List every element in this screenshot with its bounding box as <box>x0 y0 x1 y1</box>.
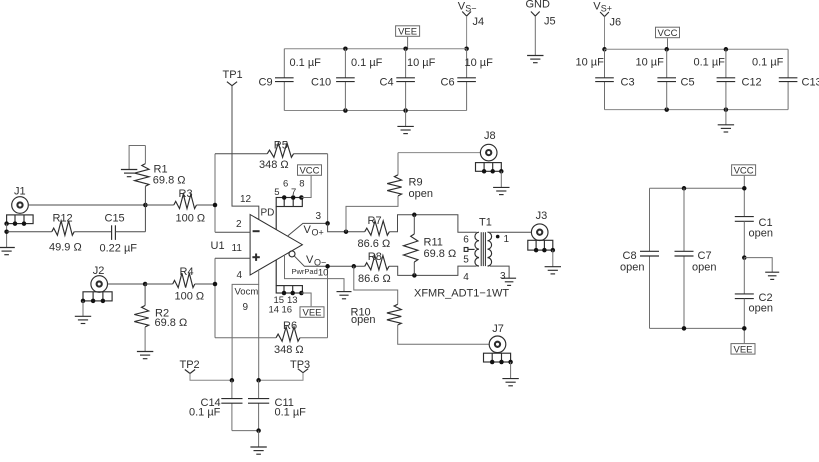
svg-text:9: 9 <box>243 302 249 313</box>
svg-text:69.8 Ω: 69.8 Ω <box>155 317 188 329</box>
svg-text:8: 8 <box>299 179 304 190</box>
U1 supply pins 5 6 7 8 <box>274 179 304 230</box>
connector J4 <box>473 16 485 28</box>
resistor R10 <box>351 266 490 344</box>
resistor R6 <box>215 320 328 356</box>
svg-text:J4: J4 <box>473 16 485 28</box>
svg-text:100 Ω: 100 Ω <box>175 290 205 302</box>
svg-text:69.8 Ω: 69.8 Ω <box>153 175 186 187</box>
svg-text:6: 6 <box>283 179 288 190</box>
svg-text:R5: R5 <box>274 140 288 152</box>
svg-text:4: 4 <box>463 272 469 283</box>
ground J8 <box>493 187 509 194</box>
svg-text:0.1 µF: 0.1 µF <box>351 57 383 69</box>
wire VEE top rail <box>284 46 466 51</box>
VEE label <box>396 26 420 49</box>
J2 ground block <box>81 292 112 303</box>
capacitor C14 <box>189 380 243 430</box>
VCC label right <box>732 165 756 177</box>
svg-text:PwrPad: PwrPad <box>292 267 318 276</box>
svg-text:J3: J3 <box>536 210 548 222</box>
wire VEE bottom rail <box>284 108 466 113</box>
svg-text:VCC: VCC <box>734 166 754 177</box>
wire T1 pin 3 to ground <box>490 266 509 282</box>
wire R6 to VO- <box>327 266 329 337</box>
T1 primary winding <box>463 232 479 283</box>
wire TP3 to C11 <box>256 373 303 383</box>
svg-text:1: 1 <box>504 234 510 245</box>
J3 ground block <box>528 240 555 252</box>
svg-text:VEE: VEE <box>302 308 321 319</box>
svg-text:10 µF: 10 µF <box>576 56 605 68</box>
pin 2 inverting input <box>215 219 260 232</box>
resistor R2 <box>134 284 187 352</box>
svg-text:5: 5 <box>274 187 279 198</box>
svg-text:Vocm: Vocm <box>235 287 259 298</box>
svg-text:6: 6 <box>463 235 469 246</box>
ground below C4 <box>397 111 413 134</box>
svg-text:R9: R9 <box>409 177 423 189</box>
svg-text:11: 11 <box>232 243 243 254</box>
wire R9 to J8 <box>398 152 480 154</box>
svg-text:0.1 µF: 0.1 µF <box>752 56 784 68</box>
pin 4 label <box>237 270 243 281</box>
svg-text:C13: C13 <box>802 77 819 89</box>
J7 ground block <box>484 353 513 364</box>
svg-text:V: V <box>304 224 312 236</box>
node between C1 C2 <box>742 255 772 272</box>
svg-text:10 µF: 10 µF <box>407 57 436 69</box>
wire R5 to VO+ <box>327 154 329 224</box>
svg-text:C8: C8 <box>623 250 637 262</box>
svg-text:10: 10 <box>318 268 329 279</box>
svg-text:86.6 Ω: 86.6 Ω <box>358 273 391 285</box>
svg-text:C5: C5 <box>681 77 695 89</box>
ground J7 <box>502 379 518 386</box>
svg-text:VCC: VCC <box>299 166 319 177</box>
svg-text:4: 4 <box>237 270 243 281</box>
feedback node vertical (pin11 side) <box>213 258 218 337</box>
svg-text:open: open <box>409 188 433 200</box>
T1 secondary winding <box>488 232 510 266</box>
svg-text:O+: O+ <box>312 228 324 238</box>
svg-text:J6: J6 <box>610 16 622 28</box>
capacitor C15 <box>100 205 146 254</box>
svg-text:7: 7 <box>291 187 296 198</box>
svg-text:86.6 Ω: 86.6 Ω <box>358 238 391 250</box>
svg-text:open: open <box>749 303 773 315</box>
connector J3 <box>531 210 548 241</box>
svg-text:R7: R7 <box>368 215 382 227</box>
resistor R1 <box>135 146 186 206</box>
resistor R4 <box>145 266 215 303</box>
capacitor C6 <box>441 49 494 111</box>
resistor R9 <box>346 153 433 232</box>
wire J4 to VEE rail <box>464 16 469 51</box>
capacitor C12 <box>694 49 762 109</box>
svg-text:C15: C15 <box>105 212 125 224</box>
svg-text:TP2: TP2 <box>180 359 200 371</box>
svg-text:C9: C9 <box>259 77 273 89</box>
svg-text:PD: PD <box>261 208 275 219</box>
svg-text:R3: R3 <box>179 188 193 200</box>
svg-text:R12: R12 <box>53 212 73 224</box>
svg-text:R4: R4 <box>180 266 194 278</box>
svg-text:R6: R6 <box>283 320 297 332</box>
resistor R11 <box>404 215 457 276</box>
connector J1 <box>12 185 29 213</box>
feedback node vertical (pin2 side) <box>213 154 218 233</box>
svg-text:J7: J7 <box>492 323 504 335</box>
node VS- <box>458 1 477 17</box>
wire J7 shield to ground <box>510 362 512 379</box>
svg-text:S+: S+ <box>601 4 612 14</box>
capacitor C4 <box>380 49 436 111</box>
svg-text:R11: R11 <box>424 237 443 249</box>
pin 11 non-inverting input <box>215 243 260 261</box>
svg-text:C4: C4 <box>380 77 394 89</box>
VEE label at U1 <box>300 293 324 319</box>
connector J7 <box>489 323 506 352</box>
svg-text:C6: C6 <box>441 77 455 89</box>
svg-text:V: V <box>306 254 314 266</box>
svg-text:0.1 µF: 0.1 µF <box>290 57 322 69</box>
T1 center tap pin 5 <box>464 248 474 252</box>
svg-text:348 Ω: 348 Ω <box>274 344 304 356</box>
svg-text:C7: C7 <box>698 250 712 262</box>
svg-text:0.1 µF: 0.1 µF <box>694 56 726 68</box>
wire VO+ to R7 <box>328 223 365 234</box>
svg-text:VEE: VEE <box>398 27 417 38</box>
node VS+ <box>593 1 612 17</box>
svg-text:5: 5 <box>463 254 469 265</box>
wire J2 to R2 node <box>108 282 148 287</box>
svg-text:100 Ω: 100 Ω <box>176 213 206 225</box>
ground J2 <box>75 316 91 323</box>
wire right bank bottom rail <box>650 326 747 331</box>
connector J6 <box>610 16 622 28</box>
wire J6 to VCC rail <box>602 17 607 52</box>
test point TP1 <box>223 69 243 86</box>
connector J2 <box>91 265 108 292</box>
svg-text:T1: T1 <box>479 217 492 229</box>
svg-text:49.9 Ω: 49.9 Ω <box>49 242 82 254</box>
svg-text:J8: J8 <box>484 130 496 142</box>
svg-text:10 µF: 10 µF <box>636 56 665 68</box>
J1 ground block <box>4 215 33 226</box>
svg-text:0.1 µF: 0.1 µF <box>275 407 307 419</box>
svg-text:XFMR_ADT1−1WT: XFMR_ADT1−1WT <box>414 288 509 300</box>
svg-text:C10: C10 <box>311 77 331 89</box>
test point TP3 <box>290 359 310 373</box>
svg-text:open: open <box>749 228 773 240</box>
VEE label right <box>731 344 755 356</box>
resistor R12 <box>7 212 112 253</box>
output bubble VO- <box>289 251 295 257</box>
svg-text:0.1 µF: 0.1 µF <box>189 407 221 419</box>
node GND <box>526 0 551 16</box>
ground C11 <box>250 447 266 454</box>
svg-text:69.8 Ω: 69.8 Ω <box>424 248 457 260</box>
capacitor C1 <box>735 217 773 258</box>
op-amp U1 triangle <box>211 215 303 276</box>
test point TP2 <box>180 359 200 374</box>
svg-text:VCC: VCC <box>657 28 677 39</box>
resistor R8 <box>358 251 477 285</box>
ground J3 <box>545 267 561 274</box>
wire R1 hook to ground <box>129 146 145 170</box>
svg-text:3: 3 <box>316 211 322 222</box>
capacitor C3 <box>576 49 635 109</box>
svg-text:10 µF: 10 µF <box>465 57 494 69</box>
wire T1 secondary to J3 <box>488 231 532 233</box>
capacitor C9 <box>259 49 322 111</box>
ground PwrPad <box>337 292 352 299</box>
ground below C12 <box>718 110 734 132</box>
J8 ground block <box>476 163 504 174</box>
ground J1 <box>0 248 15 255</box>
VCC label top <box>656 27 680 49</box>
pin 10 output VO- <box>295 254 365 279</box>
svg-text:348 Ω: 348 Ω <box>259 159 289 171</box>
svg-text:open: open <box>620 262 644 274</box>
svg-text:16: 16 <box>282 305 293 316</box>
svg-text:J1: J1 <box>14 185 26 197</box>
wire J1 to input node <box>28 203 147 208</box>
svg-text:2: 2 <box>236 219 242 230</box>
svg-text:open: open <box>351 314 375 326</box>
svg-text:C3: C3 <box>621 77 635 89</box>
svg-text:C12: C12 <box>742 77 762 89</box>
wire J8 shield to ground <box>500 171 502 187</box>
wire TP2 to C14 <box>190 374 234 383</box>
wire VCC top rail <box>605 47 789 52</box>
wire VCC bottom rail <box>605 107 789 112</box>
svg-text:3: 3 <box>500 271 506 282</box>
wire J5 to ground <box>534 16 536 56</box>
ground R2 <box>137 352 153 359</box>
pin 12 label PD <box>240 194 274 219</box>
svg-text:R8: R8 <box>368 251 382 263</box>
wire J2 shield to ground <box>82 301 84 316</box>
U1 supply pins 15 13 14 16 <box>269 260 304 316</box>
capacitor C8 <box>620 188 659 328</box>
capacitor C11 <box>248 380 306 430</box>
svg-text:VEE: VEE <box>733 344 752 355</box>
wire C14 C11 to ground <box>232 428 261 447</box>
svg-text:0.22 µF: 0.22 µF <box>100 242 138 254</box>
wire VCC to C1 <box>743 176 745 217</box>
pin 9 Vocm net <box>232 270 259 380</box>
svg-text:TP1: TP1 <box>223 69 243 81</box>
resistor R3 <box>145 188 215 225</box>
transformer T1 core <box>479 217 492 267</box>
capacitor C2 <box>735 258 773 344</box>
resistor R7 <box>358 213 477 250</box>
ground J5 <box>527 56 543 63</box>
svg-text:open: open <box>692 262 716 274</box>
ground right bank <box>765 272 779 279</box>
T1 part label <box>414 288 509 300</box>
capacitor C10 <box>311 49 383 111</box>
connector J8 <box>480 130 497 161</box>
svg-text:14: 14 <box>269 305 280 316</box>
svg-text:J5: J5 <box>544 16 556 28</box>
wire J1 shield to ground <box>4 224 9 248</box>
capacitor C13 <box>752 49 819 109</box>
VCC label at U1 <box>298 165 322 198</box>
svg-text:12: 12 <box>240 194 252 205</box>
ground R1 <box>121 170 137 177</box>
ground T1 pin3 <box>502 278 516 285</box>
capacitor C7 <box>675 188 717 328</box>
wire TP1 to PD pin <box>232 86 259 220</box>
svg-text:U1: U1 <box>211 240 225 252</box>
svg-text:O−: O− <box>314 258 326 268</box>
wire right bank top rail <box>650 186 747 191</box>
wire J3 shield to ground <box>552 250 554 267</box>
capacitor C5 <box>636 49 695 109</box>
connector J5 <box>544 16 556 28</box>
resistor R5 <box>215 140 328 171</box>
pin 3 output VO+ <box>288 211 330 238</box>
svg-text:GND: GND <box>526 0 551 11</box>
PwrPad pin <box>285 255 345 292</box>
